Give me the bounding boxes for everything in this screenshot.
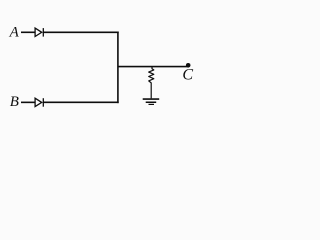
wire diode D2 to bus <box>43 101 118 103</box>
wire A to diode D1 <box>21 31 35 33</box>
wire bus to output node C <box>118 66 188 68</box>
svg-text:A: A <box>9 24 20 40</box>
resistor R1 (pull-down) <box>149 67 154 99</box>
diode D1 (input A) <box>35 28 43 36</box>
svg-text:C: C <box>182 67 193 84</box>
svg-text:B: B <box>10 94 19 110</box>
bus wire (vertical, joins D1 and D2 outputs) <box>117 32 119 104</box>
diode D2 (input B) <box>35 98 43 107</box>
wire diode D1 to bus <box>43 31 118 33</box>
ground <box>143 99 160 104</box>
wire B to diode D2 <box>21 101 35 103</box>
node C (output terminal dot) <box>186 63 191 68</box>
